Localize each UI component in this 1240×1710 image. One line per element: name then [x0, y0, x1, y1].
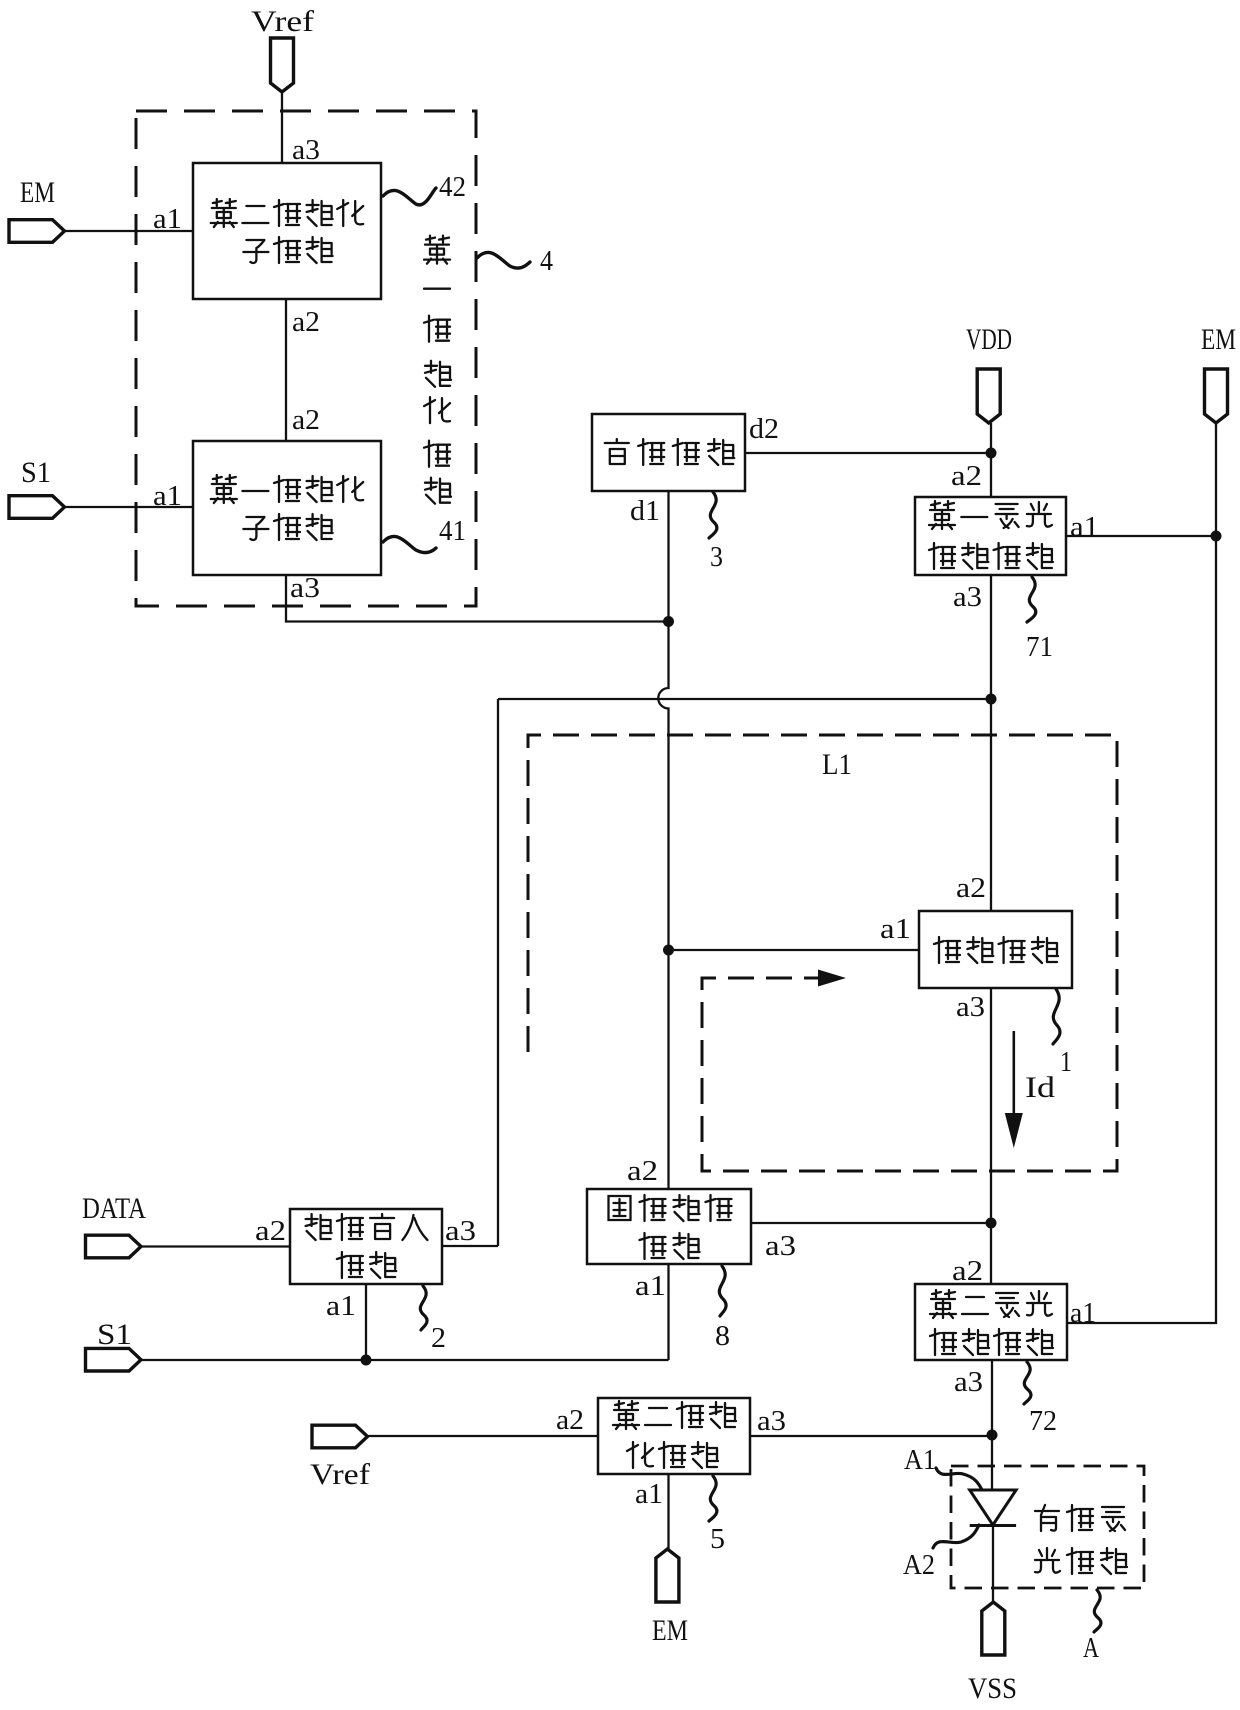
leader squiggle to 4	[477, 252, 530, 268]
svg-text:a1: a1	[1070, 1297, 1096, 1329]
terminal S1 (upper) pin symbol	[9, 496, 65, 519]
svg-text:1: 1	[1060, 1046, 1072, 1078]
svg-text:L1: L1	[822, 748, 852, 781]
wire: threshold comp pin a3 to driving column	[751, 1222, 991, 1224]
wire: S1 terminal to module 41 pin a1	[65, 506, 194, 508]
module 3: storage module box	[592, 414, 745, 491]
terminal VDD pin symbol	[977, 369, 1000, 423]
svg-text:VSS: VSS	[968, 1672, 1017, 1705]
module 71 text line2 (kong-zhi-mo-kuai)	[929, 543, 1053, 569]
current Id arrowhead	[1005, 1113, 1023, 1148]
module 42: second initialization sub-module box	[193, 163, 381, 299]
svg-text:71: 71	[1026, 631, 1053, 663]
dashed current loop L1 (spiral)	[528, 735, 1117, 1171]
leader squiggle to 5	[709, 1476, 717, 1521]
terminal EM (top-left) pin symbol	[9, 220, 65, 243]
module 42 text line2 (zi-mo-kuai)	[243, 237, 332, 263]
svg-text:a1: a1	[635, 1478, 663, 1510]
svg-text:42: 42	[439, 171, 466, 203]
svg-text:DATA: DATA	[82, 1192, 146, 1225]
svg-text:a3: a3	[954, 1366, 983, 1398]
terminal Vref (bottom) pin symbol	[312, 1425, 368, 1448]
module 42 text line1 (di-er-chu-shi-hua)	[211, 199, 363, 227]
module 5: second initialization module box	[598, 1398, 750, 1474]
OLED diode cathode bar	[970, 1524, 1016, 1527]
leader squiggle to 71	[1027, 577, 1036, 622]
wire: VDD pin to module 71 pin a2	[990, 423, 992, 497]
wire: Vref top pin to module 42 pin a3	[281, 92, 283, 163]
leader squiggle to 41	[383, 536, 436, 552]
svg-text:2: 2	[431, 1322, 446, 1354]
module 2 text line2 (mo-kuai)	[337, 1252, 396, 1278]
module 1 text (qu-dong-mo-kuai)	[934, 937, 1058, 963]
svg-text:EM: EM	[20, 176, 55, 209]
wire: OLED cathode to VSS pin	[992, 1526, 994, 1602]
wire: module 71 pin a1 to EM right column	[1066, 535, 1216, 537]
leader squiggle from A2 to cathode	[933, 1525, 979, 1548]
wire: DATA terminal to data write pin a2	[141, 1245, 290, 1247]
terminal EM (top-right) pin symbol	[1205, 369, 1228, 423]
wire: driving pin a3 down to second emit control a2	[990, 988, 992, 1284]
svg-text:A: A	[1083, 1632, 1099, 1664]
leader squiggle to 72	[1024, 1362, 1031, 1404]
junction: S1 row at data write a1	[361, 1355, 372, 1366]
wire: storage pin d1 column down to threshold compensation a2 (with hop at N1 crossing)	[658, 491, 668, 1189]
svg-text:a2: a2	[292, 306, 320, 338]
wire: second init pin a3 to OLED column	[750, 1435, 992, 1437]
svg-text:4: 4	[540, 245, 553, 277]
svg-text:VDD: VDD	[966, 323, 1012, 356]
svg-text:a3: a3	[765, 1230, 796, 1262]
junction: VDD node with d2	[986, 448, 997, 459]
svg-text:Vref: Vref	[310, 1458, 370, 1491]
svg-text:S1: S1	[97, 1318, 132, 1351]
svg-text:a3: a3	[956, 991, 985, 1023]
module 41 text line1 (di-yi-chu-shi-hua)	[211, 475, 363, 503]
module 72: second light-emitting control module box	[915, 1284, 1067, 1360]
svg-text:a3: a3	[953, 581, 982, 613]
module 71: first light-emitting control module box	[915, 497, 1066, 575]
leader squiggle to 1	[1053, 989, 1060, 1044]
terminal DATA pin symbol	[86, 1235, 142, 1258]
svg-text:3: 3	[710, 541, 723, 573]
OLED structure text line1 (you-ji-fa)	[1035, 1505, 1125, 1531]
svg-text:a2: a2	[255, 1215, 286, 1247]
junction: d1 column at driving a1 row	[663, 945, 674, 956]
module 8 text line2 (mo-kuai)	[640, 1233, 700, 1259]
module 5 text line1 (di-er-chu-shi)	[613, 1401, 736, 1429]
wire: EM right column down to module 72 pin a1 corner	[1067, 423, 1216, 1323]
svg-text:d1: d1	[630, 495, 660, 527]
junction: N1 joins VDD/driving column	[986, 694, 997, 705]
leader squiggle from A1 to anode	[936, 1468, 982, 1490]
wire: Vref bottom terminal to second init pin a2	[367, 1435, 598, 1437]
module 8: threshold compensation module box	[587, 1189, 751, 1264]
module 72 text line2 (kong-zhi-mo-kuai)	[930, 1329, 1053, 1355]
svg-text:a1: a1	[635, 1270, 666, 1302]
svg-text:a1: a1	[1070, 511, 1099, 543]
svg-text:Id: Id	[1025, 1071, 1055, 1104]
wire: data write pin a1 down to S1 row	[365, 1284, 367, 1360]
dashed boundary: organic light-emitting structure A	[951, 1466, 1144, 1588]
module 5 text line2 (hua-mo-kuai)	[627, 1442, 718, 1468]
wire: d1 column to driving pin a1	[669, 949, 920, 951]
wire: EM terminal to module 42 pin a1	[65, 230, 194, 232]
module 1: driving module box	[919, 911, 1072, 988]
module 41 text line2 (zi-mo-kuai)	[243, 514, 332, 540]
module 41: first initialization sub-module box	[193, 441, 381, 575]
module 2 text line1 (shu-ju-xie-ru)	[306, 1214, 428, 1240]
leader squiggle to 42	[383, 188, 436, 205]
svg-text:a2: a2	[956, 872, 986, 904]
OLED structure text line2 (guang-jie-gou)	[1035, 1548, 1127, 1574]
terminal Vref (top) pin symbol	[271, 38, 294, 92]
svg-text:5: 5	[710, 1523, 725, 1555]
terminal S1 (lower) pin symbol	[86, 1348, 142, 1371]
wire: module 41 pin a3 down and right to node d1 column	[286, 575, 669, 622]
vertical label: first initialization module (4)	[424, 236, 451, 504]
junction: module 72 a3 node with second init a3	[987, 1430, 998, 1441]
wire: S1 row to threshold comp a1 column	[141, 1359, 669, 1361]
module 8 text line1 (yu-zhi-bu-chang)	[609, 1195, 732, 1221]
wire: module 72 pin a3 down to OLED anode	[991, 1360, 993, 1489]
module 2: data writing module box	[290, 1209, 442, 1284]
junction: module 41 a3 output joins storage d1 column	[663, 616, 674, 627]
arrowhead of loop L1	[818, 970, 846, 987]
svg-text:a2: a2	[951, 460, 982, 492]
leader squiggle to 3	[709, 492, 717, 538]
svg-text:72: 72	[1029, 1405, 1057, 1437]
svg-text:a2: a2	[627, 1155, 658, 1187]
leader squiggle to 8	[719, 1266, 726, 1316]
module 3 text (cun-chu-mo-kuai)	[605, 439, 734, 465]
wire: N1 left column down to data-write a3 row	[497, 699, 499, 1246]
svg-text:a3: a3	[290, 572, 320, 604]
leader squiggle to 2	[420, 1286, 427, 1330]
module 71 text line1 (di-yi-fa-guang)	[929, 501, 1052, 529]
dashed boundary: first initialization module 4	[136, 111, 476, 606]
wire: storage pin d2 to VDD column	[745, 452, 991, 454]
terminal EM (bottom) pin symbol	[656, 1549, 679, 1602]
svg-text:S1: S1	[21, 456, 51, 489]
wire: second init pin a1 down to EM bottom pin	[667, 1474, 669, 1549]
svg-text:a3: a3	[445, 1215, 476, 1247]
OLED diode triangle	[970, 1490, 1016, 1525]
current Id arrow line	[1012, 1031, 1015, 1122]
svg-text:A2: A2	[903, 1549, 935, 1581]
svg-text:a2: a2	[952, 1255, 983, 1287]
svg-text:EM: EM	[652, 1614, 688, 1647]
svg-text:a3: a3	[292, 134, 320, 166]
svg-text:a2: a2	[556, 1404, 584, 1436]
terminal VSS pin symbol	[982, 1602, 1005, 1655]
wire: data write pin a3 to N1 left column	[442, 1245, 498, 1247]
svg-text:a3: a3	[757, 1405, 786, 1437]
svg-text:d2: d2	[749, 413, 779, 445]
wire: module 42 pin a2 to module 41 pin a2	[285, 299, 287, 441]
wire: node N1 horizontal through hop	[498, 698, 991, 700]
svg-text:A1: A1	[904, 1444, 936, 1476]
svg-text:a1: a1	[880, 913, 911, 945]
svg-text:a1: a1	[326, 1290, 356, 1322]
junction: EM column at module 71 a1	[1211, 531, 1222, 542]
wire: threshold comp pin a1 down to S1 row	[667, 1264, 669, 1360]
leader squiggle to A	[1094, 1590, 1101, 1632]
junction: driving column at threshold a3 row	[986, 1218, 997, 1229]
wire: module 71 pin a3 down to driving module a2	[990, 575, 992, 911]
svg-text:8: 8	[715, 1320, 730, 1352]
svg-text:a2: a2	[292, 404, 320, 436]
module 72 text line1 (di-er-fa-guang)	[930, 1290, 1052, 1318]
svg-text:EM: EM	[1201, 323, 1236, 356]
svg-text:Vref: Vref	[251, 5, 314, 38]
svg-text:41: 41	[439, 515, 466, 547]
